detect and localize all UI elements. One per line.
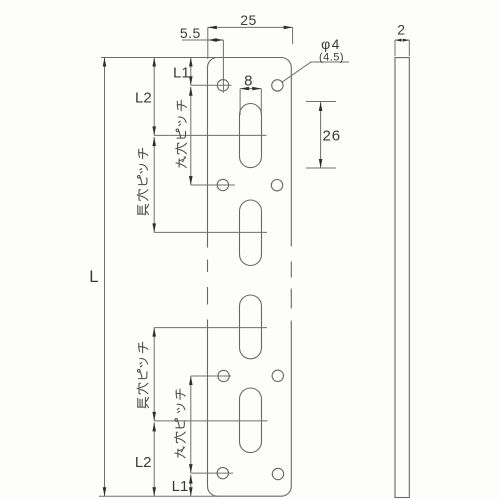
slot4 center line (154, 420, 267, 422)
plate left edge break dashes (207, 260, 209, 305)
svg-text:26: 26 (322, 128, 341, 145)
svg-text:25: 25 (240, 12, 257, 28)
svg-text:L1: L1 (172, 478, 189, 495)
slot2 center line (154, 231, 267, 233)
round hole row3 left (218, 370, 229, 381)
svg-text:2: 2 (397, 22, 405, 38)
label round-hole-pitch bottom (maruana pitch) (175, 389, 186, 458)
bottom edge extension line (99, 495, 218, 497)
label round-hole-pitch top (maruana pitch) (176, 100, 187, 167)
round hole row1 left (217, 80, 228, 91)
side view plate section (395, 58, 409, 498)
dimension slot-pitch bottom line (153, 328, 155, 421)
top edge extension line (101, 57, 216, 59)
hole row2 center line (191, 184, 235, 186)
plate right edge break dashes (290, 262, 292, 309)
svg-text:φ4: φ4 (321, 36, 341, 52)
plate outline top portion (208, 58, 292, 248)
slot hole 3 (240, 295, 262, 359)
dimension 2 extension lines (395, 40, 409, 56)
dimension L line (104, 58, 106, 497)
svg-text:L2: L2 (135, 90, 152, 107)
round hole row1 right (272, 80, 283, 91)
dimension 26 line (320, 102, 322, 168)
svg-text:(4.5): (4.5) (319, 51, 344, 63)
slot hole 1 (240, 104, 262, 168)
label slot-pitch bottom (nagaana pitch) (137, 342, 149, 408)
dimension slot-pitch top line (153, 137, 155, 232)
hole row1 center line (191, 84, 232, 86)
dimension round-hole-pitch top line (190, 87, 192, 185)
dimension L2 top line (153, 58, 155, 136)
leader line phi4 (282, 62, 349, 82)
dimension 25 left extension (207, 27, 209, 59)
dimension 25 line (208, 26, 293, 28)
svg-text:L: L (89, 268, 98, 286)
hole row3 center line (191, 375, 231, 377)
hole row4 center line (191, 472, 233, 474)
round hole row2 right (271, 180, 282, 191)
slot3 center line (154, 327, 267, 329)
dimension L1 top line (190, 58, 192, 86)
svg-text:8: 8 (244, 73, 252, 90)
dimension 2 line (395, 39, 409, 41)
dimension 5.5 line (182, 39, 223, 41)
dimension round-hole-pitch bottom line (190, 376, 192, 473)
round hole row3 right (272, 370, 283, 381)
slot hole 2 (240, 200, 262, 266)
dimension 8 line (240, 88, 261, 90)
round hole row2 left (217, 179, 228, 190)
label slot-pitch top (nagaana pitch) (137, 148, 149, 215)
dimension 8 extension lines (240, 89, 261, 115)
svg-text:5.5: 5.5 (180, 25, 201, 41)
dimension 26 extension ticks (306, 102, 336, 169)
slot1 center line (154, 134, 266, 136)
dimension 25 right extension (292, 27, 294, 44)
round hole row4 left (217, 467, 228, 478)
hole column crosshair / 5.5 extension line (222, 40, 224, 93)
dimension L1 bottom line (190, 475, 192, 497)
svg-text:L1: L1 (173, 65, 190, 82)
svg-text:L2: L2 (135, 454, 152, 471)
round hole row4 right (272, 468, 283, 479)
dimension L2 bottom line (153, 422, 155, 496)
plate outline bottom portion (208, 320, 292, 497)
slot hole 4 (240, 388, 262, 453)
